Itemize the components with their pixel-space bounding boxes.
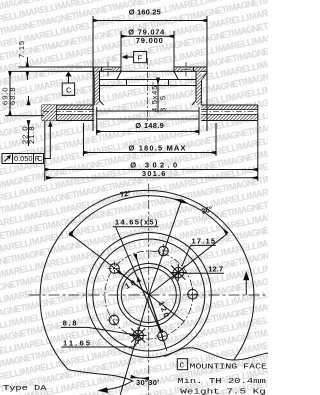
vent centerline right bbox=[202, 110, 257, 112]
center axis (section) bbox=[147, 58, 149, 124]
dim 7.15 left bbox=[17, 41, 94, 80]
vent gap white right bbox=[202, 110, 257, 114]
arc 72 deg bbox=[70, 196, 181, 235]
hat top plate hatched bbox=[93, 67, 207, 72]
svg-text:Min. TH 20.4mm: Min. TH 20.4mm bbox=[177, 378, 266, 386]
svg-text:301.6: 301.6 bbox=[142, 169, 166, 178]
svg-text:Ø 180.5 MAX: Ø 180.5 MAX bbox=[129, 143, 186, 152]
friction inner circle bbox=[86, 233, 211, 358]
label 12.7 bbox=[184, 264, 224, 273]
svg-text:0.050: 0.050 bbox=[14, 154, 33, 163]
wavy break line right bbox=[165, 348, 269, 360]
arc 36 deg bbox=[182, 201, 227, 233]
svg-text:14.65(x5): 14.65(x5) bbox=[115, 218, 158, 227]
hat wall left bbox=[93, 67, 103, 105]
bolt hole B bbox=[156, 244, 170, 258]
dim diameter 79.074 / 79.000 bbox=[121, 28, 174, 67]
rotation direction arrow bbox=[98, 381, 134, 394]
bore chamfer marks bbox=[117, 71, 178, 85]
radial through X2 to bottom bbox=[120, 295, 149, 395]
hub interior lines bbox=[100, 80, 197, 86]
svg-text:FC: FC bbox=[35, 154, 44, 163]
bolt hole E bbox=[156, 329, 170, 343]
crossed hole X1 bbox=[170, 264, 187, 281]
centerline elbow arrow right bbox=[245, 279, 247, 295]
bolt hole C2 bbox=[186, 287, 200, 301]
svg-text:7.15: 7.15 bbox=[17, 41, 26, 58]
svg-text:4.5x45°: 4.5x45° bbox=[150, 82, 159, 112]
radial line 120 through E bbox=[135, 254, 167, 350]
svg-text:C: C bbox=[180, 363, 185, 371]
svg-text:Type DA: Type DA bbox=[3, 385, 47, 393]
datum F box bbox=[122, 52, 147, 63]
bore edges bbox=[121, 67, 174, 71]
dim diameter 302.0 bbox=[45, 121, 258, 181]
svg-text:C: C bbox=[66, 85, 72, 94]
dim diameter 180.5 MAX bbox=[84, 123, 217, 156]
horizontal centerline front view bbox=[29, 294, 266, 296]
svg-text:F: F bbox=[138, 53, 143, 62]
bolt hole A bbox=[108, 262, 122, 276]
hub step circle bbox=[117, 264, 180, 327]
vent centerline left bbox=[43, 110, 94, 112]
label 8.8 bbox=[61, 319, 136, 335]
vent gap white left bbox=[43, 110, 94, 114]
arc 30 deg 30 min bbox=[131, 377, 149, 379]
bolt hole D bbox=[107, 313, 121, 327]
label 14.65(x5) bbox=[113, 218, 161, 332]
104 arrow at A bbox=[118, 271, 149, 295]
dim diameter 148.9 bbox=[97, 107, 200, 135]
hub interior far-side lines bbox=[97, 111, 199, 119]
120 arrow at E bbox=[149, 295, 162, 332]
svg-text:3.5: 3.5 bbox=[159, 96, 168, 112]
hat outer circle bbox=[93, 239, 205, 351]
svg-text:Weight 7.5 Kg: Weight 7.5 Kg bbox=[180, 389, 265, 395]
label 17.15 bbox=[182, 237, 216, 266]
solid rim left bbox=[42, 105, 57, 121]
friction ring left: plates bbox=[42, 105, 94, 121]
label 11.65 bbox=[62, 338, 141, 347]
runout feature control frame bbox=[2, 121, 53, 164]
svg-text:MOUNTING FACE: MOUNTING FACE bbox=[190, 363, 268, 371]
hat face lines bbox=[10, 67, 208, 71]
svg-text:30°30': 30°30' bbox=[136, 378, 159, 387]
svg-text:Ø 148.9: Ø 148.9 bbox=[135, 121, 164, 130]
dim 22.0 21.8 left bbox=[20, 96, 36, 146]
svg-text:79.000: 79.000 bbox=[136, 36, 163, 45]
boss step marks bbox=[102, 67, 194, 71]
dim 69.0 68.8 left bbox=[1, 71, 44, 115]
svg-text:21.8: 21.8 bbox=[27, 127, 36, 145]
svg-text:17.15: 17.15 bbox=[192, 237, 216, 246]
radial line 104 through A extended bbox=[70, 234, 184, 322]
svg-text:12.7: 12.7 bbox=[208, 264, 223, 273]
extension left 160.25 down bbox=[92, 70, 94, 131]
bolt hole centerline left bbox=[107, 62, 109, 78]
svg-text:72°: 72° bbox=[119, 188, 131, 199]
hat wall right bbox=[192, 71, 208, 105]
vertical centerline front view bbox=[148, 184, 150, 395]
svg-text:Ø 160.25: Ø 160.25 bbox=[129, 8, 161, 17]
dim diameter 160.25 bbox=[93, 8, 207, 132]
bolt circle bbox=[105, 251, 193, 339]
bolt hole centerline right bbox=[185, 62, 187, 78]
outer circle diameter 302 bbox=[40, 190, 254, 369]
center bore circle bbox=[121, 268, 176, 323]
dim 301.6 bbox=[47, 169, 258, 178]
svg-text:8.8: 8.8 bbox=[63, 319, 77, 328]
section text 4.5x45 and 3.5 bbox=[150, 78, 168, 113]
friction ring right: plates bbox=[201, 105, 257, 121]
crossed hole X2 bbox=[130, 327, 147, 344]
radial through X1 bbox=[149, 234, 228, 295]
wavy break line left bbox=[68, 370, 134, 382]
mounting face C note bbox=[177, 359, 267, 372]
datum C box bbox=[62, 71, 74, 95]
radial line to B extended bbox=[149, 201, 182, 295]
svg-text:68.8: 68.8 bbox=[8, 88, 17, 106]
